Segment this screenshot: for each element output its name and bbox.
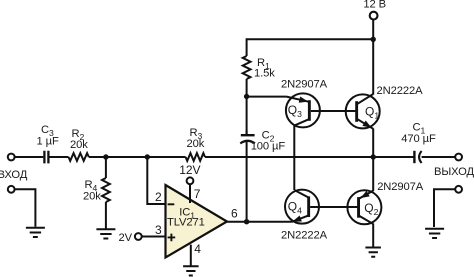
ground (Q2)	[365, 248, 381, 257]
op-amp inverting input -	[168, 203, 175, 205]
op-amp non-inverting input +	[168, 234, 176, 242]
op-amp pin 4 wire	[190, 245, 192, 266]
output terminal	[455, 154, 462, 161]
svg-text:20k: 20k	[83, 191, 101, 203]
resistor R4	[105, 157, 107, 178]
input terminal (signal)	[8, 154, 15, 161]
transistor Q2 2N2907A	[347, 190, 381, 224]
capacitor C3	[44, 151, 48, 164]
svg-text:12V: 12V	[179, 163, 200, 177]
wire	[246, 79, 248, 134]
svg-text:2N2907A: 2N2907A	[377, 181, 424, 193]
svg-text:TLV271: TLV271	[167, 217, 205, 229]
svg-text:2N2222A: 2N2222A	[281, 229, 328, 241]
svg-text:4: 4	[194, 242, 201, 256]
capacitor C2	[241, 134, 255, 136]
wire	[147, 157, 164, 204]
wire Q2 collector	[372, 224, 374, 247]
wire	[246, 131, 248, 135]
ground (output)	[425, 229, 444, 238]
svg-text:ВЫХОД: ВЫХОД	[434, 166, 474, 178]
transistor Q3 2N2907A	[286, 93, 320, 127]
12V supply terminal	[187, 177, 194, 184]
wire	[89, 156, 186, 158]
svg-text:2N2907A: 2N2907A	[281, 78, 328, 90]
positive rail wire	[247, 39, 374, 56]
wire Q3 emitter feed	[247, 96, 287, 98]
wire Q1 collector	[372, 39, 374, 94]
node junction output/C2	[244, 219, 249, 224]
op-amp V+ wire pin7	[189, 185, 191, 203]
svg-text:100 µF: 100 µF	[251, 140, 286, 152]
svg-text:3: 3	[155, 223, 162, 237]
transistor Q4 2N2222A	[285, 190, 319, 224]
node junction R2/R4	[103, 154, 108, 159]
wire	[15, 189, 36, 227]
input ground terminal	[8, 186, 15, 193]
svg-text:470 µF: 470 µF	[401, 133, 436, 145]
svg-text:6: 6	[231, 207, 238, 221]
transistor Q1 2N2222A	[346, 94, 380, 128]
node junction output node	[371, 154, 376, 159]
wire Q3/Q4 collectors	[293, 125, 295, 190]
wire	[372, 19, 374, 39]
wire	[422, 156, 456, 158]
12 В supply terminal	[370, 12, 378, 20]
svg-text:1.5k: 1.5k	[254, 68, 275, 80]
resistor R2	[69, 153, 89, 161]
op-amp output wire	[227, 221, 292, 223]
svg-text:20k: 20k	[187, 138, 205, 150]
svg-text:1 µF: 1 µF	[37, 135, 59, 147]
node junction rail	[371, 37, 376, 42]
wire	[50, 156, 69, 158]
2V reference terminal	[135, 233, 142, 240]
wire	[434, 189, 455, 227]
wire Q1 emitter	[372, 128, 374, 157]
svg-text:12 В: 12 В	[363, 0, 386, 11]
node junction R1/C2/Q3	[244, 94, 249, 99]
svg-text:20k: 20k	[70, 139, 88, 151]
svg-text:2V: 2V	[119, 232, 133, 244]
ground (R4)	[96, 229, 115, 238]
wire Q3-Q1 bases	[311, 110, 356, 112]
output ground terminal	[455, 186, 462, 193]
resistor R1	[243, 56, 251, 79]
wire	[205, 156, 414, 158]
svg-text:2: 2	[155, 190, 162, 204]
ground (input)	[26, 228, 45, 237]
resistor R3	[186, 153, 205, 161]
wire	[15, 156, 44, 158]
svg-text:ВХОД: ВХОД	[0, 169, 28, 181]
svg-text:7: 7	[194, 187, 201, 201]
node junction feedback	[145, 154, 150, 159]
capacitor C1	[413, 151, 415, 163]
ground (op-amp)	[183, 266, 199, 275]
wire Q2 emitter	[372, 157, 374, 191]
wire	[142, 236, 165, 238]
op-amp U1 body	[166, 185, 228, 258]
wire Q4-Q2 bases	[310, 206, 358, 208]
svg-text:2N2222A: 2N2222A	[377, 85, 424, 97]
